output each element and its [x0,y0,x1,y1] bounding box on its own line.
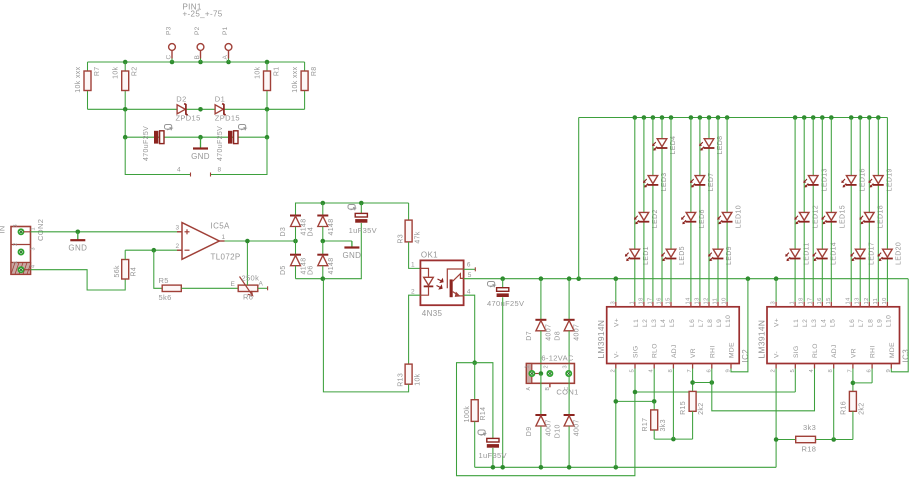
svg-text:IC2: IC2 [741,349,750,363]
svg-text:L9: L9 [716,319,723,327]
resistor R5 5k6 [159,276,182,302]
svg-text:R4: R4 [130,267,137,277]
svg-text:6-12VAC: 6-12VAC [541,354,574,363]
optocoupler OK1 4N35 [411,251,472,319]
junction output/bridge [293,239,298,244]
wire: IC2 MODE to V+ [731,279,748,372]
svg-text:10k: 10k [113,66,120,78]
LED10 [717,118,742,302]
svg-text:D5: D5 [280,265,287,275]
svg-text:LED15: LED15 [840,205,847,228]
svg-text:L5: L5 [829,319,836,327]
svg-text:8: 8 [218,167,222,174]
svg-text:10k xxx: 10k xxx [292,66,299,92]
svg-text:ADJ: ADJ [671,344,678,358]
svg-text:LED20: LED20 [896,242,903,265]
junction C1 top [359,201,364,206]
junction dots on top rail [123,60,269,65]
svg-text:R15: R15 [680,401,687,415]
svg-text:B: B [194,55,201,60]
svg-text:P3: P3 [166,26,173,35]
svg-text:4007: 4007 [546,324,553,341]
svg-text:L7: L7 [858,319,865,327]
capacitor C7 470uF25V [143,125,172,162]
svg-text:100k: 100k [464,406,471,423]
svg-text:4007: 4007 [546,419,553,436]
svg-text:+-25_+-75: +-25_+-75 [183,10,223,19]
wire: R5 to trimmer R6 [181,287,238,289]
svg-text:10k: 10k [255,66,262,78]
resistor R8 (10k xxx) [292,66,318,109]
wire: D4 to AC node [322,227,324,242]
svg-text:VR: VR [690,348,697,358]
wire: IC3 V- down to ground rail [775,369,777,468]
IC IC2 LM3914N [596,297,750,373]
svg-text:2: 2 [544,365,550,368]
svg-text:1: 1 [411,262,415,269]
wire: node to SIG loop (left drop) [457,363,635,476]
svg-text:L5: L5 [669,319,676,327]
node IC3 side: V- tie and R18 [776,439,853,441]
svg-text:3: 3 [563,365,569,368]
svg-text:R3: R3 [397,234,404,244]
diode D7 4007 [526,279,552,374]
svg-text:D6: D6 [307,265,314,275]
wire: IC3 V+ to rail [775,279,777,302]
wire: IC3 MODE to V+ [891,279,908,372]
svg-text:4007: 4007 [574,324,581,341]
wire: op-amp V- stub (pin 4) [125,137,190,176]
svg-text:L1: L1 [633,319,640,327]
svg-text:L2: L2 [642,319,649,327]
zener D2 ZPD15 [176,94,201,122]
svg-text:IC3: IC3 [902,349,911,363]
LED5 [661,118,686,302]
svg-text:4: 4 [467,289,471,296]
svg-text:470uF25V: 470uF25V [143,126,150,161]
node SIG line [635,369,795,393]
node: top rail (P1/P2/P3 bus) [88,61,305,63]
junctions on capacitor line [123,135,269,140]
junction ADJ [671,437,676,442]
svg-text:L6: L6 [689,319,696,327]
diode D8 4007 [554,279,580,364]
svg-text:R13: R13 [397,373,404,387]
svg-text:E: E [231,281,236,288]
wire: IC2 V+ to rail [615,279,617,302]
svg-text:D3: D3 [280,227,287,237]
wire: IC3 VR column [852,369,854,392]
resistor R4 56k [114,250,137,279]
svg-text:A: A [222,55,229,60]
wire: capacitor line y=137.2 [125,109,267,137]
svg-text:3k3: 3k3 [803,423,816,432]
trimmer R6 250k [231,241,268,301]
junction RLO/R17 [652,399,657,404]
svg-text:2k2: 2k2 [858,403,865,415]
wire: node to C5 [475,363,493,439]
svg-text:R2: R2 [132,67,139,77]
wire: OK1 pin2 to R13 [409,295,421,364]
svg-text:470uF25V: 470uF25V [217,126,224,161]
wire: IC2 RLO/V- tie [616,369,654,402]
svg-text:R16: R16 [840,401,847,415]
svg-text:GND: GND [191,152,210,161]
svg-text:P2: P2 [194,26,201,35]
svg-text:56k: 56k [114,265,121,277]
junctions on bottom rail [491,465,618,470]
svg-text:P1: P1 [222,26,229,35]
svg-text:1: 1 [13,261,19,264]
svg-text:47k: 47k [415,231,422,243]
svg-text:4148: 4148 [328,258,335,275]
svg-text:RLO: RLO [812,343,819,358]
pin P3 [166,26,176,62]
svg-text:TL072P: TL072P [211,253,241,262]
junction output/wiper [245,239,250,244]
svg-text:1: 1 [222,234,226,241]
resistor R18 3k3 [796,423,817,454]
wire: IC2 RHI to IC3 RLO [712,369,815,411]
capacitor C1 1uF35V [348,203,377,279]
wire: R4 top to op-amp -IN [125,249,182,251]
svg-text:L9: L9 [876,319,883,327]
svg-text:R18: R18 [802,445,817,454]
svg-text:3: 3 [13,224,19,227]
svg-text:D7: D7 [526,331,533,341]
svg-text:3: 3 [176,225,180,232]
svg-text:VR: VR [850,348,857,358]
svg-text:4148: 4148 [328,219,335,236]
diode D9 4007 [526,374,552,468]
resistor R2 (10k) [113,62,139,109]
wire: CON2 bottom pin to R4 [24,270,126,290]
svg-text:B: B [545,387,551,391]
wire: IC2 VR column [692,369,694,392]
IC IC3 LM3914N [757,297,911,373]
LED20 [878,118,903,302]
svg-text:LED10: LED10 [735,205,742,228]
svg-text:MDE: MDE [889,342,896,358]
svg-text:D2: D2 [176,94,186,103]
svg-text:D9: D9 [526,427,533,437]
svg-text:L10: L10 [725,315,732,327]
junction feedback node [152,248,157,253]
LED15 [821,118,846,302]
diode D3 4148 [280,203,323,237]
wire: CON2 pin to op-amp +IN [24,231,182,233]
diode D10 4007 [554,383,580,467]
wire: op-amp output [225,240,296,242]
node GND bottom rail [475,466,776,468]
svg-text:RHI: RHI [709,345,716,358]
junctions on LED bus [633,115,881,120]
svg-text:2: 2 [411,289,415,296]
svg-text:L10: L10 [885,315,892,327]
junction R14 top node [472,360,477,365]
wire: OK1 pin6 stub [464,267,476,271]
svg-text:ADJ: ADJ [831,344,838,358]
junctions on supply rail [500,276,778,281]
svg-text:2: 2 [176,243,180,250]
LED12 [794,118,819,302]
svg-text:R8: R8 [311,67,318,77]
svg-text:GND: GND [68,244,87,253]
wire: IC3 SIG column riser [0,0,1,1]
wire: VR to RHI jog [693,382,712,384]
svg-text:L4: L4 [820,319,827,327]
wire: zener line y=109.3 [88,108,305,110]
LED14 [812,118,837,302]
svg-text:2: 2 [13,243,19,246]
svg-text:1: 1 [31,227,37,230]
svg-text:RHI: RHI [870,345,877,358]
svg-text:LM3914N: LM3914N [596,320,606,359]
svg-text:10k: 10k [415,373,422,385]
wire: LED bus riser [578,118,580,279]
svg-text:1uF35V: 1uF35V [349,226,377,235]
diode D4 4148 [307,216,335,237]
svg-text:C: C [166,54,173,59]
junction AC/gnd [321,239,326,244]
ground GND (input) [68,232,87,253]
LED7 [690,118,715,302]
svg-text:R6: R6 [243,293,253,302]
svg-text:L7: L7 [698,319,705,327]
connector PIN1 label [183,3,223,19]
LED13 [803,118,828,302]
svg-text:470uF25V: 470uF25V [487,299,524,308]
svg-text:GND: GND [342,251,361,260]
pin P1 [222,26,232,62]
svg-text:L4: L4 [660,319,667,327]
wire: IC2 ADJ column [672,369,674,440]
svg-text:2k2: 2k2 [698,403,705,415]
ground GND (bridge) [342,241,361,260]
svg-text:L3: L3 [811,319,818,327]
svg-text:SIG: SIG [633,345,640,358]
resistor R14 100k [464,363,487,468]
svg-text:4: 4 [31,265,37,268]
svg-text:250k: 250k [242,274,260,283]
junctions on zener line [123,107,269,112]
node LED anode bus [579,117,888,119]
pin P2 [194,26,204,62]
LED4 [652,118,677,302]
resistor R13 10k [397,364,421,387]
svg-text:D8: D8 [554,331,561,341]
svg-text:L3: L3 [651,319,658,327]
wire: OK1 pin5 to supply rail [464,278,503,280]
wire: op-amp V+ stub (pin 8) [211,137,268,176]
junction bridge bottom [321,276,326,281]
svg-text:IC5A: IC5A [211,222,230,231]
svg-text:D10: D10 [554,424,561,438]
svg-text:4007: 4007 [574,419,581,436]
capacitor C4 470uF25V [217,125,246,162]
wire: R7 top corner [87,62,89,71]
LED3 [643,118,668,302]
LED19 [868,118,893,302]
connector CON2 (IN) [0,219,45,275]
junction IC3 ADJ [831,437,836,442]
diode D5 4148 [280,241,308,279]
svg-text:V-: V- [774,351,781,358]
svg-text:LED5: LED5 [679,246,686,265]
svg-text:4: 4 [177,167,181,174]
junction D7/D9 at CON1 [539,371,544,376]
junction at GND tap [76,230,81,235]
LED17 [850,118,875,302]
svg-text:10k xxx: 10k xxx [75,66,82,92]
svg-text:1uF35V: 1uF35V [479,451,507,460]
svg-text:V+: V+ [613,318,620,327]
wire: AC node to ground [323,240,352,242]
junction RHI [710,380,715,385]
wire: IC3 VR to RHI jog [853,369,872,383]
LED9 [708,118,733,302]
wire: R3 to OK1 pin1 [409,242,421,269]
junction IC3 VR [851,381,856,386]
svg-text:MDE: MDE [729,342,736,358]
wire: R17/ADJ/R15 bottom tie [654,438,692,440]
LED2 [634,118,659,302]
junction SIG [633,390,638,395]
svg-text:ZPD15: ZPD15 [176,114,201,123]
node V+ supply rail [503,278,909,280]
svg-text:1: 1 [525,365,531,368]
wire: IC2 V- down to ground rail [615,369,617,468]
svg-text:4N35: 4N35 [422,309,443,318]
svg-text:A: A [259,281,264,288]
junction D4 top [321,201,326,206]
ground GND (top section) [191,137,210,161]
resistor R16 2k2 [840,391,865,439]
svg-text:6: 6 [467,262,471,269]
svg-text:A: A [526,387,532,391]
LED16 [841,118,866,302]
LED11 [785,118,810,302]
wire: feedback down to R5 [154,250,162,288]
capacitor C5 1uF35V [478,430,507,467]
svg-text:LM3914N: LM3914N [757,320,767,359]
svg-text:L1: L1 [793,319,800,327]
capacitor C6 470uF25V [487,279,524,468]
junction V- tie [614,399,619,404]
svg-text:SIG: SIG [793,345,800,358]
svg-text:R7: R7 [94,67,101,77]
svg-text:V-: V- [613,351,620,358]
svg-text:D1: D1 [215,94,225,103]
svg-text:5k6: 5k6 [159,293,172,302]
LED18 [859,118,884,302]
svg-text:L6: L6 [849,319,856,327]
svg-text:R17: R17 [642,418,649,432]
svg-text:ZPD15: ZPD15 [215,114,240,123]
svg-text:L8: L8 [867,319,874,327]
wire: R13 to bridge minus [323,279,408,392]
LED1 [625,118,650,302]
wire: OK1 pin4 to R14 node [464,295,475,363]
LED6 [681,118,706,302]
wire: bridge top rail [296,203,409,241]
svg-text:OK1: OK1 [421,251,438,260]
svg-text:D4: D4 [307,227,314,237]
svg-text:R14: R14 [480,407,487,421]
resistor R3 47k [397,203,421,244]
svg-text:3k3: 3k3 [660,419,667,431]
zener D1 ZPD15 [215,94,240,122]
connector CON1 6-12VAC [525,354,579,397]
svg-text:R5: R5 [159,276,169,285]
op-amp IC5A TL072P [176,222,241,262]
svg-text:L8: L8 [707,319,714,327]
resistor R1 (10k) [255,62,281,109]
junction VR [690,380,695,385]
wire: IC3 ADJ column [833,369,835,440]
resistor R15 2k2 [680,391,705,439]
svg-text:CON2: CON2 [36,219,45,241]
wire: bridge bottom rail [296,278,362,280]
svg-text:L2: L2 [802,319,809,327]
svg-text:3: 3 [31,247,37,250]
resistor R17 3k3 [642,401,667,439]
resistor R7 (10k xxx) [75,66,101,109]
svg-text:RLO: RLO [652,343,659,358]
svg-text:5: 5 [468,272,472,279]
junction IC3 V- [774,437,779,442]
svg-text:V+: V+ [774,318,781,327]
svg-text:IN: IN [0,225,7,233]
diode D6 4148 [307,241,335,279]
svg-text:R1: R1 [274,67,281,77]
wire: R8 top corner [304,62,306,72]
LED8 [699,118,724,302]
